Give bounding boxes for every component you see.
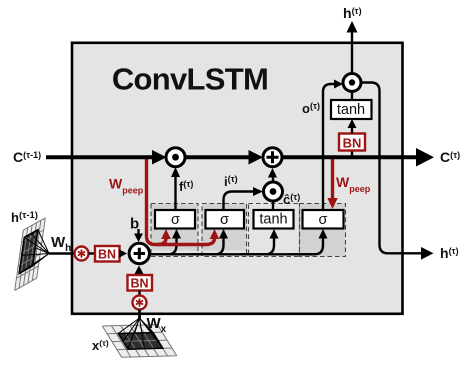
dashed container sigma1 (forget gate) (151, 204, 198, 251)
x(t) input grid (102, 318, 177, 357)
conv circle bottom (red asterisk) (133, 296, 147, 310)
h(t-1) input grid (15, 218, 49, 291)
wire branch into sigma4 (290, 237, 323, 254)
svg-text:tanh: tanh (337, 102, 365, 118)
svg-text:σ: σ (319, 212, 328, 228)
svg-text:tanh: tanh (259, 212, 287, 228)
wire BN to tanh-top with arrow (351, 127, 353, 134)
wire C to BN top (351, 150, 353, 157)
svg-text:BN: BN (130, 277, 148, 291)
wire branch into sigma2 (190, 237, 224, 254)
convolution fan lines x (118, 318, 163, 349)
wire grid to conv circle (49, 252, 74, 255)
svg-text:ConvLSTM: ConvLSTM (112, 62, 268, 97)
wire odot-h right and down to h(t) right (361, 83, 421, 254)
wire o from sigma4 up to odot-h (323, 84, 336, 210)
wire BN bottom to conv bottom (138, 291, 140, 296)
wire BN bottom to adder arrow (138, 272, 140, 275)
odot circle candidate (264, 182, 283, 201)
wire odot-h up to h(t) top (351, 31, 353, 74)
convolution fan lines h (19, 230, 49, 274)
ConvLSTM cell box (72, 43, 403, 314)
wire input bus from adder to gates (150, 253, 315, 255)
tanh top box (331, 100, 372, 119)
wire i from sigma2 to odot-chat (224, 192, 255, 211)
oplus circle on C line (263, 148, 282, 167)
wire odot-chat up to oplus (272, 177, 274, 182)
BN box top (red) (339, 134, 365, 151)
wire BN left to adder with arrow (120, 252, 123, 254)
sigma4 box (303, 210, 344, 229)
W_peep red line from C state to sigma1 and sigma2 (147, 158, 215, 245)
odot circle output h (343, 74, 361, 92)
wire conv bottom down to x grid (138, 310, 141, 321)
svg-text:σ: σ (220, 212, 229, 228)
BN box bottom (red) (128, 275, 153, 291)
dashed container tanh (candidate) (249, 204, 300, 257)
wire branch into tanh box (240, 237, 274, 254)
wire tanh up to odot-chat (272, 201, 274, 210)
cell state thick line C (46, 155, 160, 159)
svg-text:BN: BN (343, 136, 362, 151)
sigma1 box (155, 210, 195, 229)
sigma2 box (206, 210, 245, 229)
BN box left (red) (95, 246, 120, 262)
dashed container sigma4 (output gate) (300, 204, 346, 257)
wire conv to BN left (89, 252, 96, 254)
svg-text:BN: BN (98, 248, 116, 262)
odot circle on C line (forget) (166, 148, 185, 167)
tanh box (254, 210, 294, 229)
dashed container sigma2 (input gate) (202, 204, 247, 251)
adder circle (129, 243, 149, 263)
wire tanh-top to odot-h (351, 91, 353, 100)
wire branch into sigma1 (150, 237, 177, 254)
W_peep red arrow from C state into sigma4 (331, 159, 334, 199)
conv circle left (red asterisk) (75, 247, 89, 261)
svg-text:σ: σ (171, 212, 180, 228)
wire f from sigma1 up to odot (174, 176, 176, 210)
